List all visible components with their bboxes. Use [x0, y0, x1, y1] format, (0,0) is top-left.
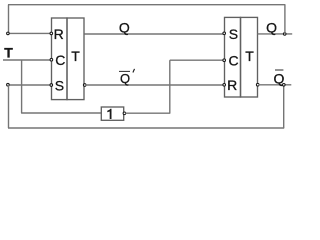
flip-flop U2 pin section [225, 17, 241, 97]
wire Q1 to S2 [84, 33, 223, 35]
wire top feedback Q2 to R1 [8, 4, 285, 6]
pin C of U2 [223, 59, 226, 62]
wire right vertical bottom [283, 85, 285, 128]
wire S1 input [8, 84, 50, 86]
svg-text:S: S [55, 77, 64, 93]
inverter G1 box [101, 107, 123, 120]
pin Q-bar output of U2 [256, 83, 259, 86]
wire right vertical top [284, 5, 286, 34]
wire to inverter input [21, 112, 101, 114]
svg-text:Q: Q [120, 71, 130, 86]
flip-flop U1 pin section [52, 18, 68, 100]
node corner left-bottom [7, 83, 10, 86]
wire left vertical bottom [8, 85, 10, 128]
overbar of Q1-bar [119, 70, 130, 72]
svg-text:Q: Q [119, 19, 130, 35]
wire T branch vertical [21, 60, 23, 113]
pin Q-bar output of U1 [83, 84, 86, 87]
wire R1 input [8, 32, 50, 34]
wire Q2 output [258, 33, 293, 35]
wire Q1-bar to R2 [86, 84, 224, 86]
node Q2 feedback junction [283, 33, 286, 36]
svg-text:Q: Q [266, 19, 277, 35]
flip-flop U1 body section [67, 18, 84, 100]
pin R of U2 [223, 84, 226, 87]
wire T input [3, 59, 50, 61]
flip-flop U2 body section [241, 17, 258, 97]
svg-text:C: C [55, 52, 65, 68]
prime mark [133, 69, 135, 73]
wire Q2-bar output [259, 84, 292, 86]
wire to C2 input [170, 59, 223, 61]
wire left vertical top [8, 5, 10, 34]
pin C of U1 [50, 58, 53, 61]
svg-text:T: T [4, 45, 13, 61]
pin R of U1 [50, 32, 53, 35]
wire bottom feedback [8, 127, 284, 129]
pin output bubble of G1 [123, 112, 126, 115]
svg-text:R: R [54, 26, 64, 42]
wire vertical to C2 [169, 60, 171, 113]
svg-text:T: T [71, 48, 80, 64]
overbar of Q2-bar [275, 69, 283, 71]
pin S of U2 [223, 32, 226, 35]
svg-text:C: C [229, 52, 239, 68]
svg-text:T: T [245, 48, 254, 64]
wire G1 output [125, 112, 170, 114]
svg-text:R: R [227, 77, 237, 93]
node corner left-top [7, 32, 10, 35]
label 1 of G1 [107, 109, 111, 119]
svg-text:S: S [229, 26, 238, 42]
node Q2-bar feedback junction [283, 84, 286, 87]
pin S of U1 [50, 84, 53, 87]
